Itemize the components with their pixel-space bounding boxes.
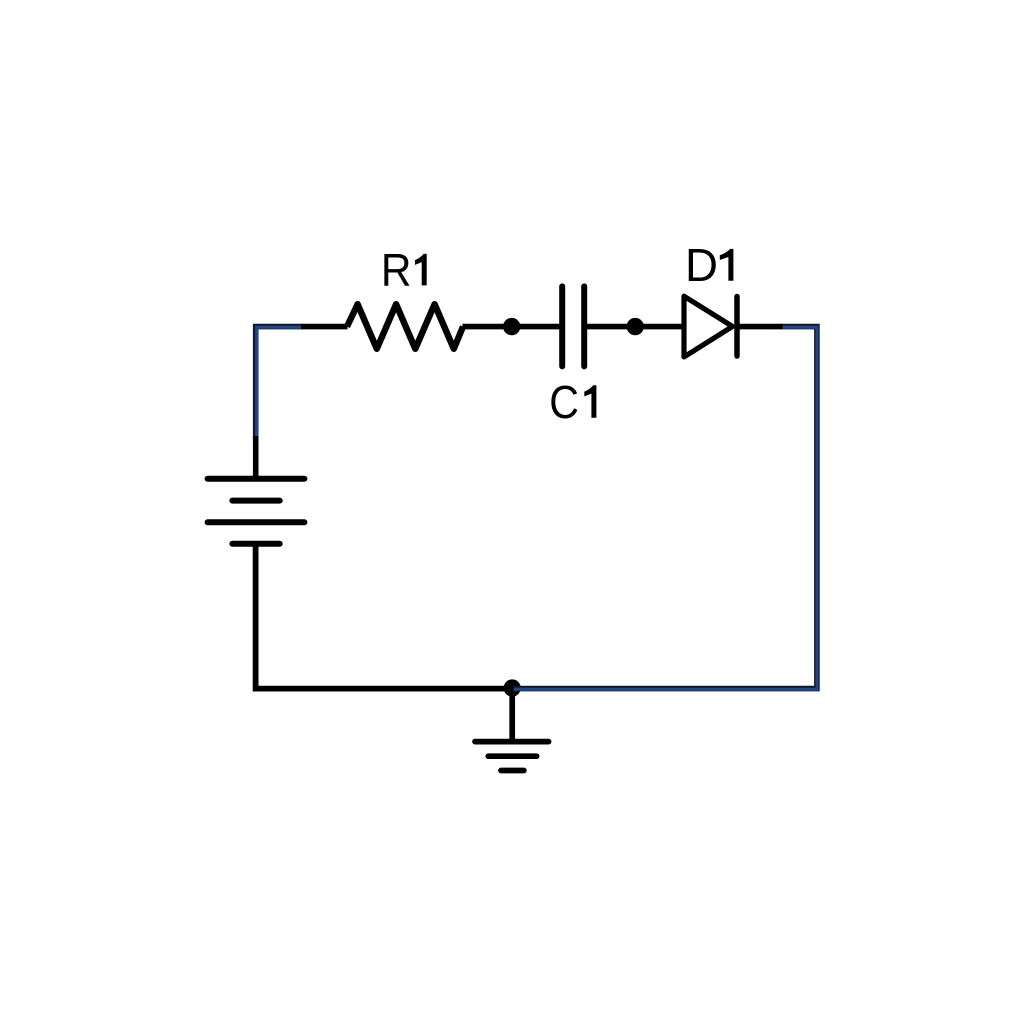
svg-text:R: R — [381, 244, 412, 296]
label R1 — [381, 244, 427, 296]
label D1 — [685, 239, 733, 291]
svg-text:C: C — [549, 376, 579, 428]
wire bottom+right blue (node VOUT) — [513, 327, 817, 690]
svg-text:D: D — [685, 239, 718, 291]
label C1 — [549, 376, 596, 428]
node dot A (R1/C1 junction) — [503, 318, 520, 335]
battery B1 — [208, 479, 305, 544]
wire C1 to D1 — [587, 324, 682, 330]
wire top-left blue corner (node VIN) — [256, 327, 303, 438]
node dot bottom (ground junction) — [504, 679, 521, 696]
wire top black left segment — [301, 324, 348, 330]
wire R1 to C1 — [463, 324, 560, 330]
diode D1 — [684, 296, 737, 357]
resistor R1 — [347, 304, 463, 349]
capacitor C1 — [562, 286, 584, 366]
ground — [475, 690, 549, 771]
wire D1 to right rail — [739, 324, 783, 330]
node dot B (C1/D1 junction) — [627, 318, 644, 335]
wire left rail black (battery top lead) — [253, 436, 259, 478]
wire battery bottom lead + bottom black wire — [256, 545, 513, 689]
